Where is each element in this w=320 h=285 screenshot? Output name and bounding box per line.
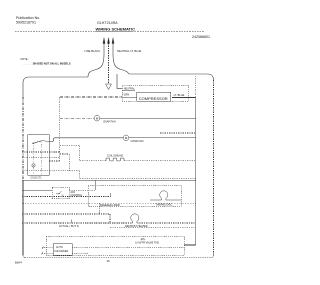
svg-text:THERMO-DISC: THERMO-DISC [156, 204, 173, 207]
svg-text:242086801: 242086801 [192, 35, 210, 39]
svg-text:5995218701: 5995218701 [16, 21, 36, 25]
svg-text:LINE BLACK: LINE BLACK [85, 49, 101, 53]
svg-text:ACTUAL ( BUT 3): ACTUAL ( BUT 3) [59, 225, 79, 228]
svg-text:FREEZER LINER: FREEZER LINER [100, 204, 120, 207]
svg-text:COLD CTL: COLD CTL [31, 177, 43, 179]
svg-text:NEUTRAL: NEUTRAL [124, 88, 136, 91]
svg-text:. . . . . . . SHADED NOT ON AL: . . . . . . . SHADED NOT ON ALL MODELS [23, 63, 71, 66]
svg-text:NOTE-: NOTE- [21, 58, 29, 61]
svg-text:GRN: GRN [124, 94, 130, 97]
svg-text:EVAP FAN: EVAP FAN [104, 120, 116, 123]
svg-text:M: M [125, 136, 128, 140]
svg-text:Publication No.: Publication No. [16, 16, 40, 20]
svg-text:ICE MAKER: ICE MAKER [55, 250, 69, 253]
svg-text:CONTROL: CONTROL [71, 194, 83, 197]
svg-text:NEUTRAL LT. BLUE: NEUTRAL LT. BLUE [117, 49, 142, 53]
svg-text:M: M [96, 117, 99, 121]
svg-text:16: 16 [107, 259, 111, 263]
svg-text:LT. BLUE: LT. BLUE [174, 93, 185, 97]
svg-text:COND FAN: COND FAN [131, 140, 144, 143]
svg-text:GLHT214RA: GLHT214RA [97, 21, 118, 25]
svg-text:COIL 50/60HZ: COIL 50/60HZ [107, 154, 123, 157]
svg-text:LH WTR VALVE THD: LH WTR VALVE THD [135, 241, 159, 244]
svg-text:BW/4: BW/4 [15, 260, 22, 264]
svg-text:DEFROST HEATER: DEFROST HEATER [125, 225, 148, 228]
svg-text:WIRING SCHEMATIC: WIRING SCHEMATIC [96, 26, 136, 31]
svg-text:COMPRESSOR: COMPRESSOR [139, 96, 168, 101]
svg-text:AUTO: AUTO [56, 246, 63, 249]
